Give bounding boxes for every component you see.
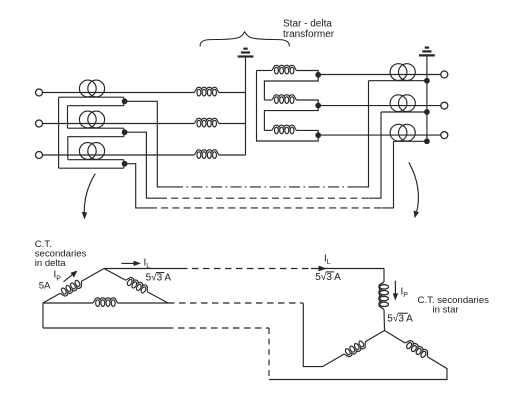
terminal T3 right — [441, 132, 448, 139]
svg-text:in star: in star — [433, 305, 460, 316]
svg-text:5√3 A: 5√3 A — [315, 271, 341, 283]
star left leg — [365, 331, 384, 342]
svg-text:transformer: transformer — [283, 29, 335, 40]
CT L2 secondary right side — [123, 128, 125, 137]
pilot wire 3 dashed — [150, 207, 382, 209]
curved arrow right — [409, 162, 419, 213]
delta link 2-3 — [67, 137, 69, 160]
svg-text:L: L — [327, 259, 331, 266]
CT R2 secondary line — [381, 111, 427, 113]
wire phase a right — [318, 74, 441, 76]
terminal T1 right — [441, 71, 448, 78]
delta secondary triangle left slope — [82, 269, 105, 282]
CT R2 — [390, 95, 415, 112]
svg-text:L: L — [146, 263, 150, 270]
pilot wire 1 dash-dot — [172, 186, 356, 188]
pilot wire 1 right — [356, 81, 369, 187]
delta secondary triangle right slope — [104, 269, 126, 281]
CT L2 — [79, 111, 104, 128]
CT L3 secondary bottom — [59, 167, 124, 169]
pilot tap 2 left — [125, 132, 160, 198]
CT R3 bus dot — [425, 139, 430, 144]
CT L2 secondary bottom — [68, 136, 124, 138]
star winding C — [194, 150, 219, 159]
pilot tap 3 left — [125, 164, 150, 208]
line IL delta apex solid — [104, 268, 181, 270]
star winding B — [194, 118, 219, 127]
terminal T2 right — [441, 102, 448, 109]
CT L3 secondary right side — [123, 160, 125, 169]
CT L1 secondary top — [59, 96, 124, 98]
line IL dashed middle — [181, 268, 311, 270]
svg-text:5√3 A: 5√3 A — [146, 272, 172, 284]
delta secondary bottom side — [43, 302, 93, 304]
wire phase c right — [318, 134, 441, 136]
CT L1 dot — [122, 99, 127, 104]
node a dot — [316, 73, 321, 78]
wire A to star point — [219, 92, 246, 94]
terminal T2 left — [36, 120, 43, 127]
wire phase A left — [43, 92, 195, 94]
star point bus — [245, 57, 247, 156]
wire B to star point — [219, 123, 246, 125]
ground right — [419, 48, 435, 56]
node b dot — [316, 103, 321, 108]
CT R3 — [390, 124, 415, 141]
line IL right solid — [311, 268, 384, 270]
pilot wire 3 right — [382, 141, 394, 208]
wire phase B left — [43, 123, 195, 125]
pilot wire 2 dashed — [160, 197, 369, 199]
IL arrow bottom-left — [121, 262, 136, 264]
CT R1 secondary line — [369, 80, 427, 82]
svg-text:P: P — [56, 276, 61, 283]
bottom pilot from delta — [43, 327, 167, 329]
CT L1 — [79, 80, 104, 97]
terminal T3 left — [36, 152, 43, 159]
star coil top — [379, 282, 389, 309]
CT L3 secondary top — [68, 159, 124, 161]
CT R1 — [390, 64, 415, 81]
svg-text:5A: 5A — [39, 281, 51, 292]
CT L1 secondary bottom — [68, 105, 124, 107]
wire C to star point — [219, 154, 246, 156]
delta link 1-2 — [67, 106, 69, 129]
ground left — [238, 49, 254, 57]
bottom pilot dashed vertical — [268, 328, 270, 380]
CT L1 secondary right side — [123, 97, 125, 106]
Ip arrow star — [394, 281, 396, 296]
CT L2 dot — [122, 130, 127, 135]
delta link outer — [58, 97, 60, 168]
svg-text:5√3 A: 5√3 A — [387, 312, 413, 324]
pilot wire 2 right — [369, 112, 381, 198]
star right leg — [385, 331, 406, 344]
CT R1 bus dot — [425, 78, 430, 83]
CT R3 secondary line — [394, 140, 427, 142]
CT L3 — [79, 143, 104, 160]
right earthing bus — [426, 56, 428, 141]
star top lead lower — [383, 310, 386, 331]
delta winding ab — [257, 70, 272, 72]
mid pilot dashed to star — [168, 302, 303, 304]
wire phase C left — [43, 154, 195, 156]
pilot tap 1 left — [125, 101, 172, 187]
delta winding ca — [264, 129, 271, 131]
star winding A — [194, 87, 219, 96]
CT L3 dot — [122, 161, 127, 166]
svg-text:Star - delta: Star - delta — [283, 19, 332, 30]
node c dot — [316, 133, 321, 138]
curved arrow left — [84, 174, 95, 215]
svg-text:P: P — [403, 292, 408, 299]
CT L2 secondary top — [68, 127, 124, 129]
wire phase b right — [318, 105, 441, 107]
delta winding bc — [264, 99, 271, 101]
terminal T1 left — [36, 89, 43, 96]
brace — [200, 32, 289, 47]
Ip arrow delta — [64, 273, 75, 282]
IL arrow on line — [319, 266, 327, 272]
svg-text:in delta: in delta — [35, 258, 67, 269]
CT R2 bus dot — [425, 110, 430, 115]
star top lead — [383, 269, 385, 283]
